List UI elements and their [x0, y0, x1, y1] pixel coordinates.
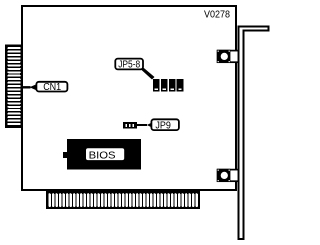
- svg-text:V0278: V0278: [204, 8, 230, 20]
- svg-text:BIOS: BIOS: [89, 150, 116, 162]
- svg-text:CN1: CN1: [43, 82, 61, 93]
- svg-text:JP9: JP9: [155, 120, 171, 131]
- svg-text:JP5-8: JP5-8: [118, 60, 140, 71]
